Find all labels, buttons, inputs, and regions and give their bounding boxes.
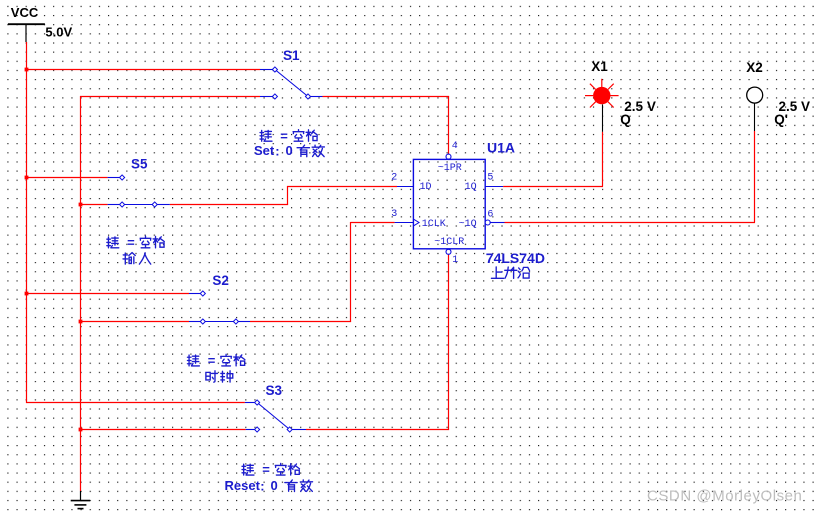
junction rail2/S5 [79, 203, 83, 207]
annotation Reset 0 active [225, 478, 313, 494]
svg-text:VCC: VCC [11, 5, 39, 20]
wire rail2 vertical [80, 96, 82, 491]
switch S1 [260, 67, 323, 99]
svg-text:=: = [127, 235, 135, 250]
svg-text:S2: S2 [212, 273, 229, 288]
annotation Set 0 active [254, 143, 324, 159]
wire S5 common to 1D pin [170, 204, 288, 206]
junction VCC/S1 [25, 68, 29, 72]
svg-text:U1A: U1A [487, 140, 515, 156]
svg-text:74LS74D: 74LS74D [486, 250, 545, 266]
svg-text:Q: Q [620, 112, 631, 127]
wire S3 common to CLR pin [306, 429, 449, 431]
annotation key space S3 [242, 462, 299, 477]
svg-text:=: = [262, 462, 270, 477]
svg-text:2: 2 [391, 173, 397, 184]
svg-text:Reset: Reset [225, 478, 261, 493]
svg-text:5: 5 [487, 173, 493, 184]
probe X2 lamp off [747, 87, 763, 131]
svg-text:Set: Set [254, 143, 275, 158]
svg-text:S1: S1 [283, 48, 300, 63]
wire VCC to S2 top throw [26, 293, 189, 295]
pin 6 notQ stub bubble [485, 220, 490, 225]
svg-text:~1CLR: ~1CLR [434, 237, 464, 248]
svg-text:1: 1 [452, 255, 458, 266]
wire rail2 to S3 bottom throw [80, 429, 246, 431]
wire rail2 to S5 bottom throw [80, 204, 108, 206]
svg-text:~1Q: ~1Q [459, 219, 477, 230]
switch S3 [245, 400, 306, 432]
svg-text:X2: X2 [746, 60, 763, 75]
power VCC symbol [8, 23, 45, 25]
svg-text:=: = [208, 353, 216, 368]
wire rail2 to S1 bottom throw [80, 96, 260, 98]
annotation key space S2 [187, 353, 244, 368]
svg-text:~1PR: ~1PR [438, 163, 462, 174]
wire rail2 to S2 bottom throw [80, 321, 189, 323]
wire S1 common to pin4 corner [323, 96, 450, 98]
pin 2 1D stub [397, 186, 413, 188]
op-amp U1A 74LS74D body [413, 159, 485, 248]
svg-text:6: 6 [487, 210, 493, 221]
wire notQ pin to X2 [505, 222, 756, 224]
annotation key space S1 [260, 129, 317, 144]
svg-text:4: 4 [452, 141, 458, 152]
label rising edge [491, 267, 529, 278]
annotation input [123, 253, 151, 264]
svg-text:0: 0 [271, 478, 278, 493]
svg-text:1CLK: 1CLK [422, 219, 446, 230]
wire VCC to S5 top throw [26, 177, 108, 179]
clock edge triangle [413, 219, 419, 226]
wire 1Q pin to X1 [503, 186, 603, 188]
svg-text:0: 0 [286, 143, 293, 158]
junction VCC/S5 [25, 176, 29, 180]
junction rail2/S3 [79, 428, 83, 432]
switch S5 [108, 175, 170, 207]
svg-text::: : [275, 144, 279, 159]
pin 1 CLR stub bubble [446, 249, 451, 254]
switch S2 [189, 291, 250, 324]
junction rail2/S2 [79, 320, 83, 324]
annotation key space S5 [107, 235, 164, 250]
svg-text:S3: S3 [266, 383, 283, 398]
svg-text:3: 3 [391, 209, 397, 220]
wire S2 common to 1CLK pin [250, 321, 351, 323]
svg-text:1D: 1D [420, 182, 432, 193]
svg-text:=: = [280, 129, 288, 144]
junction VCC/S2 [25, 292, 29, 296]
ground [71, 491, 90, 509]
wire VCC rail to S3 top throw [26, 402, 245, 404]
pin 3 1CLK stub [395, 222, 414, 224]
svg-text:5.0V: 5.0V [45, 24, 72, 39]
svg-text:1Q: 1Q [465, 182, 477, 193]
probe X1 lamp lit [585, 79, 619, 132]
pin 4 PRE stub [448, 154, 450, 159]
svg-text::: : [260, 478, 264, 493]
pin 5 1Q stub [485, 186, 503, 188]
svg-text:X1: X1 [591, 59, 608, 74]
wire VCC to S1 top throw [26, 69, 260, 71]
wire VCC rail vertical [26, 42, 28, 403]
svg-text:CSDN @MorleyOlsen: CSDN @MorleyOlsen [647, 488, 802, 505]
svg-text:S5: S5 [131, 157, 148, 172]
svg-text:Q': Q' [774, 112, 788, 127]
annotation clock [206, 371, 233, 382]
